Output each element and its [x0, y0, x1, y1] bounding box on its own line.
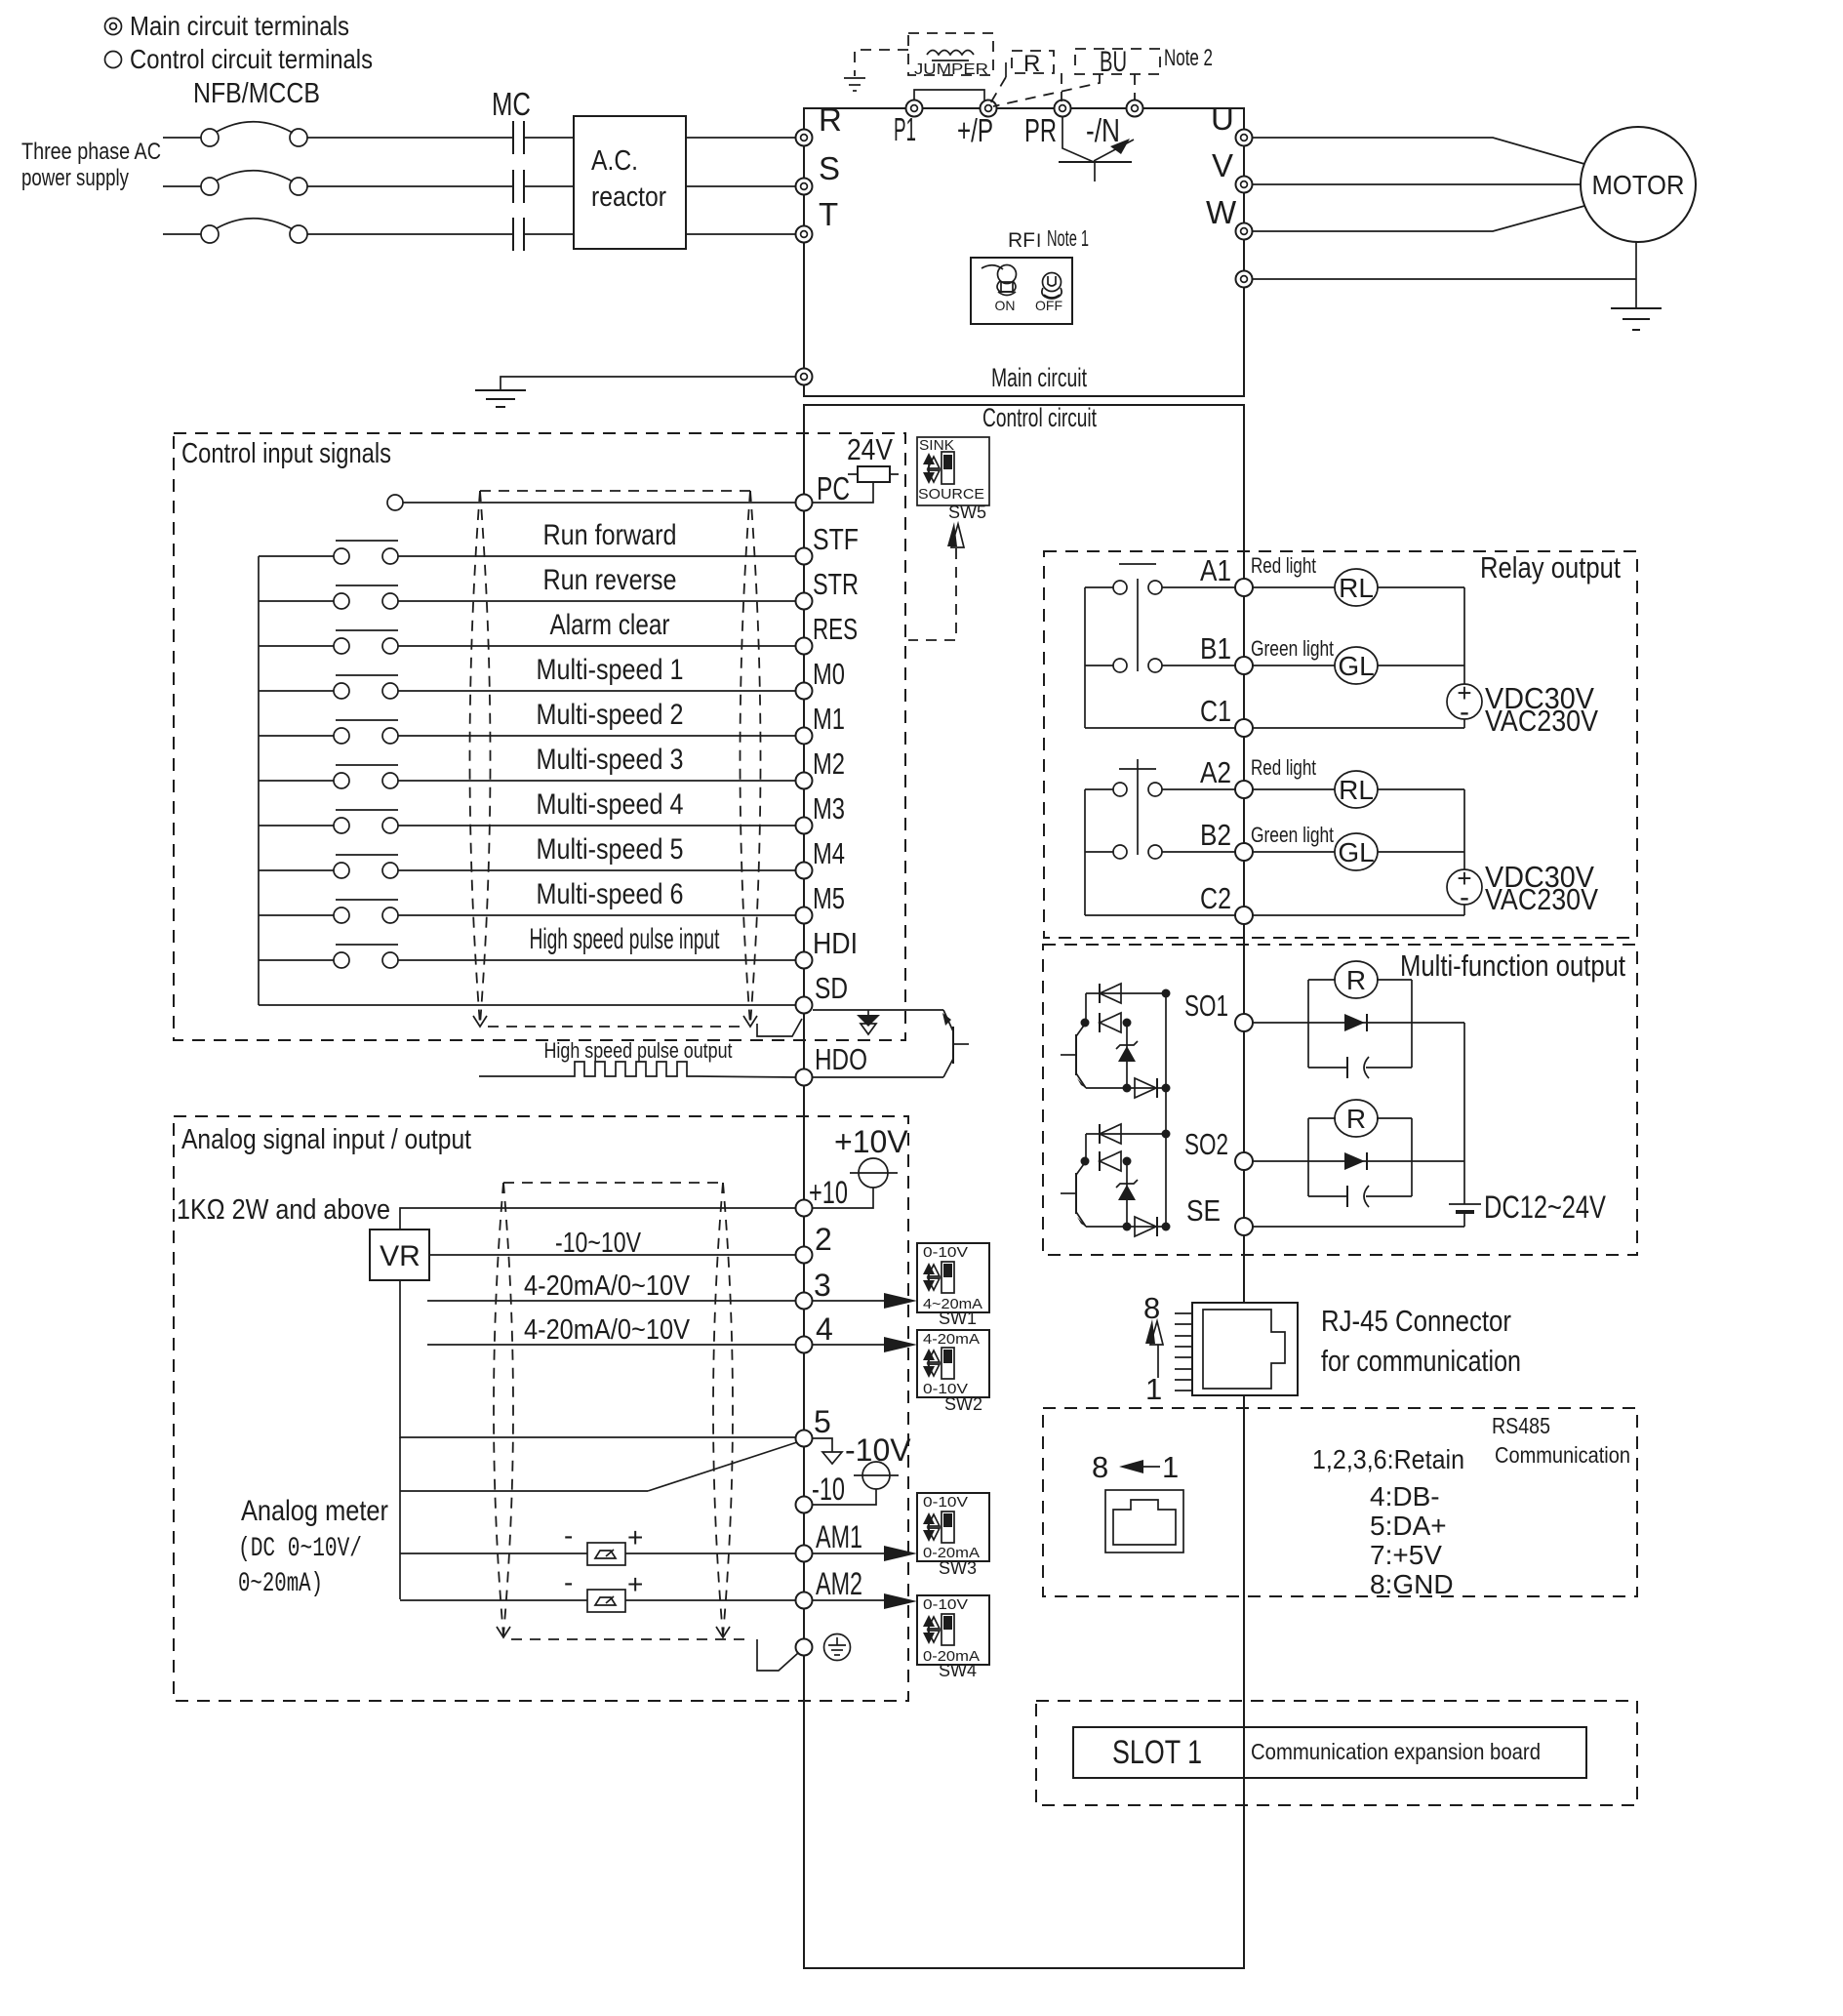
relay output dashed box	[1044, 551, 1637, 938]
wire B1 to GL lamp	[1253, 665, 1335, 666]
svg-text:Multi-speed 1: Multi-speed 1	[537, 654, 684, 686]
wire to terminal M1	[398, 735, 795, 737]
SW2 slide glyph	[923, 1348, 954, 1379]
svg-text:Three phase AC: Three phase AC	[21, 139, 161, 165]
wire AM2 row	[400, 1599, 884, 1601]
wire C1 to supply	[1253, 727, 1464, 729]
dashed shield bottom link (analog)	[511, 1638, 749, 1640]
terminal B1	[1235, 657, 1253, 674]
terminal M4	[796, 863, 813, 879]
svg-text:HDO: HDO	[815, 1042, 867, 1076]
wire B2 to GL lamp	[1253, 851, 1335, 853]
svg-text:MC: MC	[492, 86, 531, 122]
terminal shield ground	[796, 1639, 813, 1656]
switch for M2 (Multi-speed 3)	[259, 765, 398, 788]
diode D2c (bottom row, anode left)	[1086, 1217, 1166, 1236]
switch for HDI (High speed pulse input)	[259, 945, 398, 968]
wire PC row	[403, 502, 795, 504]
svg-text:-: -	[564, 1567, 573, 1597]
svg-text:B2: B2	[1200, 818, 1231, 852]
terminal M1	[796, 728, 813, 745]
wire GL to supply	[1378, 665, 1464, 666]
terminal U	[1236, 130, 1253, 146]
ground symbol (left)	[475, 390, 526, 407]
svg-text:VAC230V: VAC230V	[1485, 704, 1598, 738]
wire motor to ground	[1635, 242, 1637, 308]
motor circle	[1581, 127, 1696, 242]
analog signal input/output dashed box	[174, 1116, 908, 1701]
svg-text:R: R	[1346, 965, 1366, 995]
DIP switch SW4 box	[917, 1595, 989, 1665]
wire RL2 to supply	[1378, 788, 1464, 790]
svg-text:VR: VR	[380, 1240, 421, 1272]
svg-text:P1: P1	[894, 111, 916, 147]
photocoupler output group 2: left bracket	[1085, 1134, 1087, 1161]
inductor squiggle in jumper box	[927, 51, 974, 56]
wire to terminal RES	[398, 645, 795, 647]
relay 1 contact A1	[1085, 581, 1235, 594]
terminal ground left	[796, 369, 813, 385]
lamp GL 2	[1335, 833, 1378, 870]
svg-text:Red light: Red light	[1251, 553, 1316, 578]
terminal C2	[1235, 907, 1253, 924]
svg-text:GL: GL	[1338, 651, 1374, 681]
arrow into SW3	[884, 1546, 917, 1561]
svg-text:Relay output: Relay output	[1480, 550, 1621, 585]
terminal AM1	[796, 1546, 813, 1562]
brake transistor at PR	[1059, 117, 1134, 181]
contactor MC pole 2	[513, 170, 524, 203]
protective earth symbol	[824, 1634, 851, 1661]
wire 5 to -10V marker	[813, 1438, 832, 1452]
RFI toggle ON	[982, 265, 1017, 296]
svg-text:A.C.: A.C.	[591, 145, 638, 177]
svg-text:0-10V: 0-10V	[923, 1244, 968, 1261]
wire V to motor	[1253, 183, 1581, 185]
switch for STF (Run forward)	[259, 541, 398, 564]
wire MC to reactor S	[525, 185, 574, 187]
svg-text:+10: +10	[809, 1175, 848, 1210]
svg-text:B1: B1	[1200, 631, 1231, 665]
svg-text:-/N: -/N	[1086, 112, 1120, 148]
RJ-45 pin direction arrow	[1145, 1319, 1163, 1378]
terminal SE	[1235, 1218, 1253, 1235]
relay 1 actuator link	[1137, 579, 1139, 671]
svg-text:C1: C1	[1200, 694, 1231, 728]
relay contact group 1 left bracket	[1084, 587, 1086, 728]
svg-text:Control circuit terminals: Control circuit terminals	[130, 44, 373, 74]
svg-text:MOTOR: MOTOR	[1592, 170, 1685, 200]
wire to terminal M0	[398, 690, 795, 692]
transistor Q1	[1061, 1023, 1086, 1088]
terminal 5	[796, 1431, 813, 1447]
left common bus of input switches	[258, 556, 260, 1005]
relay contact group 2 left bracket	[1084, 789, 1086, 915]
wire T phase NFB to MC	[307, 233, 512, 235]
svg-text:1KΩ 2W and above: 1KΩ 2W and above	[177, 1194, 390, 1226]
svg-text:Analog meter: Analog meter	[241, 1495, 388, 1527]
SW5 slide switch glyph	[923, 452, 954, 484]
shielded cable lens left (analog)	[494, 1183, 513, 1637]
RJ-45 connector inner outline	[1203, 1310, 1285, 1389]
wire ground terminal to motor ground	[1253, 278, 1636, 280]
svg-text:Note 1: Note 1	[1047, 225, 1089, 251]
shielded cable lens right (analog)	[713, 1183, 733, 1637]
diode D1c (bottom row, anode left)	[1086, 1078, 1166, 1098]
shielded cable lens right (control inputs)	[741, 491, 761, 1027]
svg-text:+10V: +10V	[834, 1124, 908, 1159]
RJ-45 pin comb	[1175, 1313, 1192, 1391]
multi-function output dashed box	[1043, 945, 1637, 1255]
svg-text:SO1: SO1	[1184, 988, 1228, 1023]
svg-text:Note 2: Note 2	[1164, 45, 1213, 71]
terminal SO2	[1235, 1152, 1253, 1170]
terminal R	[796, 130, 813, 146]
svg-text:R: R	[1346, 1104, 1366, 1134]
svg-text:M4: M4	[813, 836, 845, 870]
svg-text:ON: ON	[995, 298, 1016, 313]
wire RL to supply	[1378, 586, 1464, 588]
switch for STR (Run reverse)	[259, 585, 398, 609]
terminal S	[796, 179, 813, 195]
svg-text:1,2,3,6:Retain: 1,2,3,6:Retain	[1312, 1444, 1464, 1474]
wire C2	[1085, 914, 1235, 916]
wire MC to reactor R	[525, 137, 574, 139]
terminal -/N	[1127, 101, 1143, 117]
svg-text:-: -	[1460, 881, 1469, 913]
wire A1 to RL lamp	[1253, 586, 1335, 588]
relay 1 contact B1	[1085, 659, 1235, 672]
svg-text:-: -	[1460, 696, 1469, 728]
svg-text:Green light: Green light	[1251, 636, 1334, 661]
wire to terminal STR	[398, 600, 795, 602]
switch for M1 (Multi-speed 2)	[259, 720, 398, 744]
dashed wire BU to +/P	[993, 74, 1100, 106]
RS485 jack front view	[1105, 1490, 1183, 1552]
dashed lead to ground (top left of P1)	[855, 50, 908, 76]
photocoupler output group 1: left bracket	[1085, 993, 1087, 1023]
wire R phase NFB to MC	[307, 137, 512, 139]
terminal M0	[796, 683, 813, 700]
relay 2 actuator link	[1137, 759, 1139, 855]
dashed shield top link	[480, 490, 750, 492]
resistor R (circle) 2	[1335, 1100, 1378, 1137]
DIP switch SW3 box	[917, 1493, 989, 1561]
wire to terminal HDI	[398, 959, 795, 961]
meter symbol AM2	[564, 1567, 643, 1612]
svg-text:0-10V: 0-10V	[923, 1494, 968, 1511]
JUMPER dashed box	[908, 33, 993, 75]
HDO open collector transistor	[942, 1010, 969, 1077]
wire to terminal STF	[398, 555, 795, 557]
svg-text:Multi-speed 6: Multi-speed 6	[537, 878, 684, 910]
svg-text:RES: RES	[813, 612, 858, 646]
lamp RL 1	[1335, 569, 1378, 606]
SW3 slide glyph	[923, 1512, 954, 1543]
wire to terminal M4	[398, 869, 795, 871]
svg-text:RS485: RS485	[1492, 1413, 1550, 1438]
wire A2 to RL lamp	[1253, 788, 1335, 790]
diode D1b (mid row, cathode left)	[1100, 1013, 1121, 1032]
svg-text:24V: 24V	[847, 432, 893, 466]
fuse 24V	[848, 466, 899, 482]
wire to terminal M2	[398, 780, 795, 782]
analog meter return bracket	[400, 1437, 797, 1599]
dashed wire R box to PR	[1061, 73, 1062, 101]
arrow into SW1	[884, 1293, 917, 1309]
zener diode Z2	[1116, 1161, 1138, 1227]
svg-text:STF: STF	[813, 522, 859, 556]
legend: control circuit terminal symbol	[105, 52, 122, 68]
wire SO1 to load	[1253, 1022, 1464, 1024]
dashed shield top link (analog)	[503, 1182, 723, 1184]
svg-text:reactor: reactor	[591, 181, 666, 213]
svg-text:Multi-speed 5: Multi-speed 5	[537, 833, 684, 866]
SW5 arrow	[947, 522, 964, 547]
zener diode Z1	[1116, 1023, 1138, 1088]
jumper bar P1 to +/P	[914, 90, 984, 107]
capacitor on loop 1	[1347, 1057, 1369, 1078]
terminal SD	[796, 997, 813, 1014]
svg-text:DC12~24V: DC12~24V	[1484, 1189, 1607, 1225]
wire MC to reactor T	[525, 233, 574, 235]
svg-text:-10: -10	[812, 1472, 845, 1507]
wire SD to HDO transistor	[813, 1009, 943, 1011]
dashed wire BU to -/N	[1134, 74, 1136, 101]
svg-text:BU: BU	[1100, 46, 1127, 78]
wire SD row	[259, 1004, 795, 1006]
svg-text:4-20mA: 4-20mA	[923, 1331, 980, 1348]
svg-text:4-20mA/0~10V: 4-20mA/0~10V	[524, 1270, 691, 1302]
terminal 4	[796, 1337, 813, 1353]
BU dashed box	[1075, 49, 1160, 74]
svg-text:+: +	[627, 1569, 643, 1599]
svg-text:Multi-function output: Multi-function output	[1400, 948, 1625, 983]
relay 1 NO contact bar	[1119, 563, 1156, 565]
wire VR to terminal 2	[429, 1254, 795, 1256]
terminal T	[796, 226, 813, 243]
A.C. reactor box	[574, 116, 686, 249]
svg-text:A1: A1	[1200, 553, 1231, 587]
svg-text:SW3: SW3	[939, 1558, 977, 1578]
svg-text:1: 1	[1145, 1372, 1162, 1406]
svg-text:High speed pulse input: High speed pulse input	[530, 923, 720, 955]
svg-text:SO2: SO2	[1184, 1127, 1228, 1161]
svg-text:SW1: SW1	[939, 1309, 977, 1328]
SW5 SINK/SOURCE selector box	[917, 437, 989, 505]
svg-text:C2: C2	[1200, 881, 1231, 915]
common vertical line of output groups	[1165, 993, 1167, 1227]
main circuit box	[804, 108, 1244, 396]
switch for M3 (Multi-speed 4)	[259, 810, 398, 833]
svg-text:Analog signal input / output: Analog signal input / output	[181, 1124, 471, 1155]
RFI switch box	[971, 258, 1072, 324]
terminal PC	[796, 495, 813, 511]
legend: main circuit terminal symbol	[105, 19, 122, 35]
svg-text:-: -	[564, 1520, 573, 1551]
supply bus group1	[1463, 587, 1465, 728]
breaker NFB pole 1 (R phase)	[163, 122, 307, 146]
svg-text:4: 4	[816, 1311, 833, 1347]
svg-text:Run reverse: Run reverse	[543, 564, 677, 596]
wire SO2 to load	[1253, 1160, 1464, 1162]
transistor Q2	[1061, 1161, 1086, 1227]
relay 2 NO contact bar	[1119, 768, 1156, 770]
svg-text:-10~10V: -10~10V	[555, 1228, 642, 1259]
svg-text:Multi-speed 3: Multi-speed 3	[537, 744, 684, 776]
DIP switch SW2 box	[917, 1330, 989, 1397]
svg-text:SLOT 1: SLOT 1	[1112, 1734, 1202, 1771]
svg-text:PC: PC	[817, 470, 850, 506]
svg-text:R: R	[1023, 51, 1040, 77]
dashed wire SW5 to RES row	[908, 548, 956, 640]
terminal M5	[796, 907, 813, 924]
svg-text:Green light: Green light	[1251, 823, 1334, 847]
terminal PR	[1055, 101, 1071, 117]
switch for RES (Alarm clear)	[259, 630, 398, 654]
arrow into SW2	[884, 1337, 917, 1352]
svg-text:M2: M2	[813, 746, 845, 781]
svg-text:5: 5	[814, 1404, 831, 1439]
dashed wire R lead to +/P	[990, 77, 1006, 103]
supply bus to battery	[1463, 1023, 1465, 1204]
svg-text:AM1: AM1	[816, 1519, 862, 1554]
wire fuse to PC	[813, 482, 873, 503]
svg-text:RF: RF	[1008, 229, 1035, 252]
svg-text:Multi-speed 2: Multi-speed 2	[537, 699, 684, 731]
svg-text:JUMPER: JUMPER	[914, 61, 988, 78]
relay 2 contact B2	[1085, 845, 1235, 859]
svg-text:AM2: AM2	[816, 1566, 862, 1601]
shield hook to ground terminal	[757, 1639, 798, 1671]
DIP switch SW1 box	[917, 1243, 989, 1312]
wire reactor to terminal S	[686, 185, 795, 187]
wire VR bottom to terminal 5	[400, 1280, 795, 1437]
svg-text:Multi-speed 4: Multi-speed 4	[537, 788, 684, 821]
svg-text:3: 3	[814, 1268, 831, 1303]
svg-text:High speed pulse output: High speed pulse output	[544, 1038, 733, 1063]
source +/- group1	[1447, 678, 1482, 728]
switch for M4 (Multi-speed 5)	[259, 855, 398, 878]
svg-text:RL: RL	[1339, 775, 1374, 805]
RS485 communication dashed box	[1043, 1408, 1637, 1596]
wire C1	[1085, 727, 1235, 729]
arrow into SW4	[884, 1593, 917, 1609]
diode on SO1 wire	[1344, 1014, 1367, 1031]
control circuit box	[804, 405, 1244, 1968]
terminal V	[1236, 177, 1253, 193]
wire to terminal M3	[398, 825, 795, 827]
terminal P1	[906, 101, 923, 117]
svg-text:VAC230V: VAC230V	[1485, 882, 1598, 916]
wire row 3	[427, 1300, 884, 1302]
wire HDO to transistor emitter	[813, 1076, 943, 1078]
svg-text:SE: SE	[1186, 1193, 1221, 1228]
svg-text:8: 8	[1092, 1450, 1108, 1484]
terminal B2	[1235, 843, 1253, 861]
source +/- group2	[1447, 864, 1482, 913]
wire +10 terminal to source	[813, 1188, 873, 1208]
svg-text:Red light: Red light	[1251, 755, 1316, 780]
diode D1a (top row, cathode left)	[1086, 984, 1166, 1003]
switch for M5 (Multi-speed 6)	[259, 900, 398, 923]
SW4 slide glyph	[923, 1614, 954, 1645]
terminal W	[1236, 223, 1253, 240]
svg-text:for communication: for communication	[1321, 1344, 1521, 1378]
bus line through slot board	[1243, 1727, 1245, 1778]
resistor R (circle) 1	[1335, 961, 1378, 998]
svg-text:1: 1	[1162, 1450, 1179, 1484]
terminal M3	[796, 818, 813, 834]
terminal A1	[1235, 579, 1253, 596]
shielded cable lens left (control inputs)	[470, 491, 491, 1027]
square pulse waveform on HDO wire	[479, 1062, 795, 1077]
svg-text:SOURCE: SOURCE	[918, 486, 984, 503]
svg-text:0-10V: 0-10V	[923, 1596, 968, 1613]
terminal -10	[796, 1497, 813, 1513]
svg-text:W: W	[1206, 194, 1237, 230]
svg-text:Main circuit: Main circuit	[991, 363, 1087, 392]
SLOT 1 board rectangle	[1073, 1727, 1586, 1778]
svg-text:Alarm clear: Alarm clear	[550, 609, 670, 641]
svg-text:8: 8	[1143, 1291, 1160, 1325]
svg-text:Main circuit terminals: Main circuit terminals	[130, 11, 349, 41]
terminal HDI	[796, 952, 813, 969]
wire to terminal M5	[398, 914, 795, 916]
R box left lead	[1005, 62, 1007, 77]
junction dots group 2	[1081, 1130, 1171, 1231]
junction dots group 1	[1081, 989, 1171, 1093]
svg-text:M1: M1	[813, 702, 845, 736]
terminal A2	[1235, 781, 1253, 798]
wire GL2 to supply	[1378, 851, 1464, 853]
supply bus group2	[1463, 789, 1465, 915]
svg-text:Control input signals: Control input signals	[181, 438, 391, 469]
svg-text:Communication: Communication	[1495, 1442, 1630, 1468]
svg-text:M3: M3	[813, 791, 845, 826]
potentiometer VR box	[370, 1230, 429, 1280]
contactor MC pole 1	[513, 121, 524, 154]
SW1 slide glyph	[923, 1262, 954, 1293]
svg-text:U: U	[1211, 101, 1234, 137]
svg-text:OFF: OFF	[1035, 298, 1062, 313]
svg-text:PR: PR	[1024, 112, 1057, 148]
svg-text:Run forward: Run forward	[543, 519, 677, 551]
terminal ground right	[1236, 271, 1253, 288]
svg-text:power supply: power supply	[21, 165, 129, 191]
svg-text:S: S	[819, 150, 840, 186]
shield grounding triangle at SD	[857, 1010, 880, 1034]
terminal STR	[796, 593, 813, 610]
ground symbol (top)	[844, 78, 865, 91]
svg-text:RJ-45 Connector: RJ-45 Connector	[1321, 1304, 1511, 1338]
terminal RES	[796, 638, 813, 655]
svg-text:0~20mA): 0~20mA)	[238, 1569, 323, 1599]
svg-text:SW4: SW4	[939, 1661, 977, 1680]
svg-text:V: V	[1212, 147, 1233, 183]
capacitor on loop 2	[1347, 1186, 1369, 1207]
-10V open triangle marker	[822, 1452, 842, 1464]
svg-text:2: 2	[815, 1222, 832, 1257]
svg-text:SW2: SW2	[944, 1394, 982, 1414]
R (brake resistor) dashed box	[1012, 51, 1054, 73]
dashed shield bottom link	[488, 1026, 741, 1028]
terminal AM2	[796, 1593, 813, 1609]
contactor MC pole 3	[513, 218, 524, 251]
battery DC12~24V	[1449, 1204, 1481, 1227]
svg-text:I: I	[1036, 231, 1041, 252]
terminal +/P	[981, 101, 997, 117]
